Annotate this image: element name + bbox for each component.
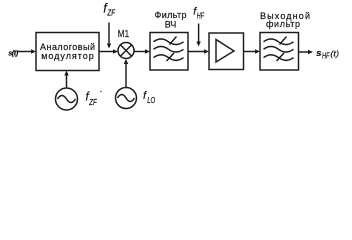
svg-text:HF: HF <box>322 51 330 60</box>
svg-text:ZF: ZF <box>107 9 116 18</box>
svg-text:HF: HF <box>197 11 205 20</box>
wire f_HF arrow down to filter-amp line <box>198 24 200 43</box>
wire output arrow <box>299 51 309 53</box>
svg-text:ZF: ZF <box>89 98 98 107</box>
HF filter wave top (crossed) <box>154 39 184 45</box>
output filter wave top (crossed) <box>264 39 294 45</box>
oscillator f_LO circle <box>116 88 137 109</box>
wire mixer to HF filter <box>134 51 146 53</box>
svg-text:ВЧ: ВЧ <box>165 19 177 29</box>
mixer M1 circle <box>118 43 134 59</box>
scan speck near f_ZF label <box>100 91 102 93</box>
svg-text:s(t): s(t) <box>8 48 19 57</box>
block output filter <box>260 33 299 71</box>
wire oscillator f_LO up to mixer <box>125 64 127 88</box>
output filter wave middle <box>264 47 294 53</box>
oscillator f_ZF circle <box>56 88 78 110</box>
svg-text:Фильтр: Фильтр <box>155 10 187 20</box>
block HF filter <box>150 33 188 71</box>
output filter wave bottom (crossed) <box>264 55 294 61</box>
svg-text:M1: M1 <box>118 29 130 40</box>
block amplifier <box>209 33 244 70</box>
amplifier triangle <box>216 40 234 63</box>
wire modulator to mixer <box>99 51 114 53</box>
wire f_ZF arrow down to modulator-mixer line <box>108 23 110 45</box>
svg-text:s: s <box>316 48 321 58</box>
HF filter wave middle <box>154 47 184 53</box>
HF filter wave bottom (crossed) <box>154 55 184 61</box>
block analog modulator <box>36 33 99 71</box>
svg-text:(t): (t) <box>330 48 339 58</box>
wire amplifier to output filter <box>244 51 256 53</box>
svg-text:LO: LO <box>147 96 155 105</box>
svg-text:фильтр: фильтр <box>266 19 300 29</box>
svg-text:модулятор: модулятор <box>41 51 94 61</box>
wire oscillator f_ZF up to modulator <box>66 75 68 88</box>
wire input to modulator <box>18 51 32 53</box>
wire HF filter to amplifier <box>188 51 205 53</box>
